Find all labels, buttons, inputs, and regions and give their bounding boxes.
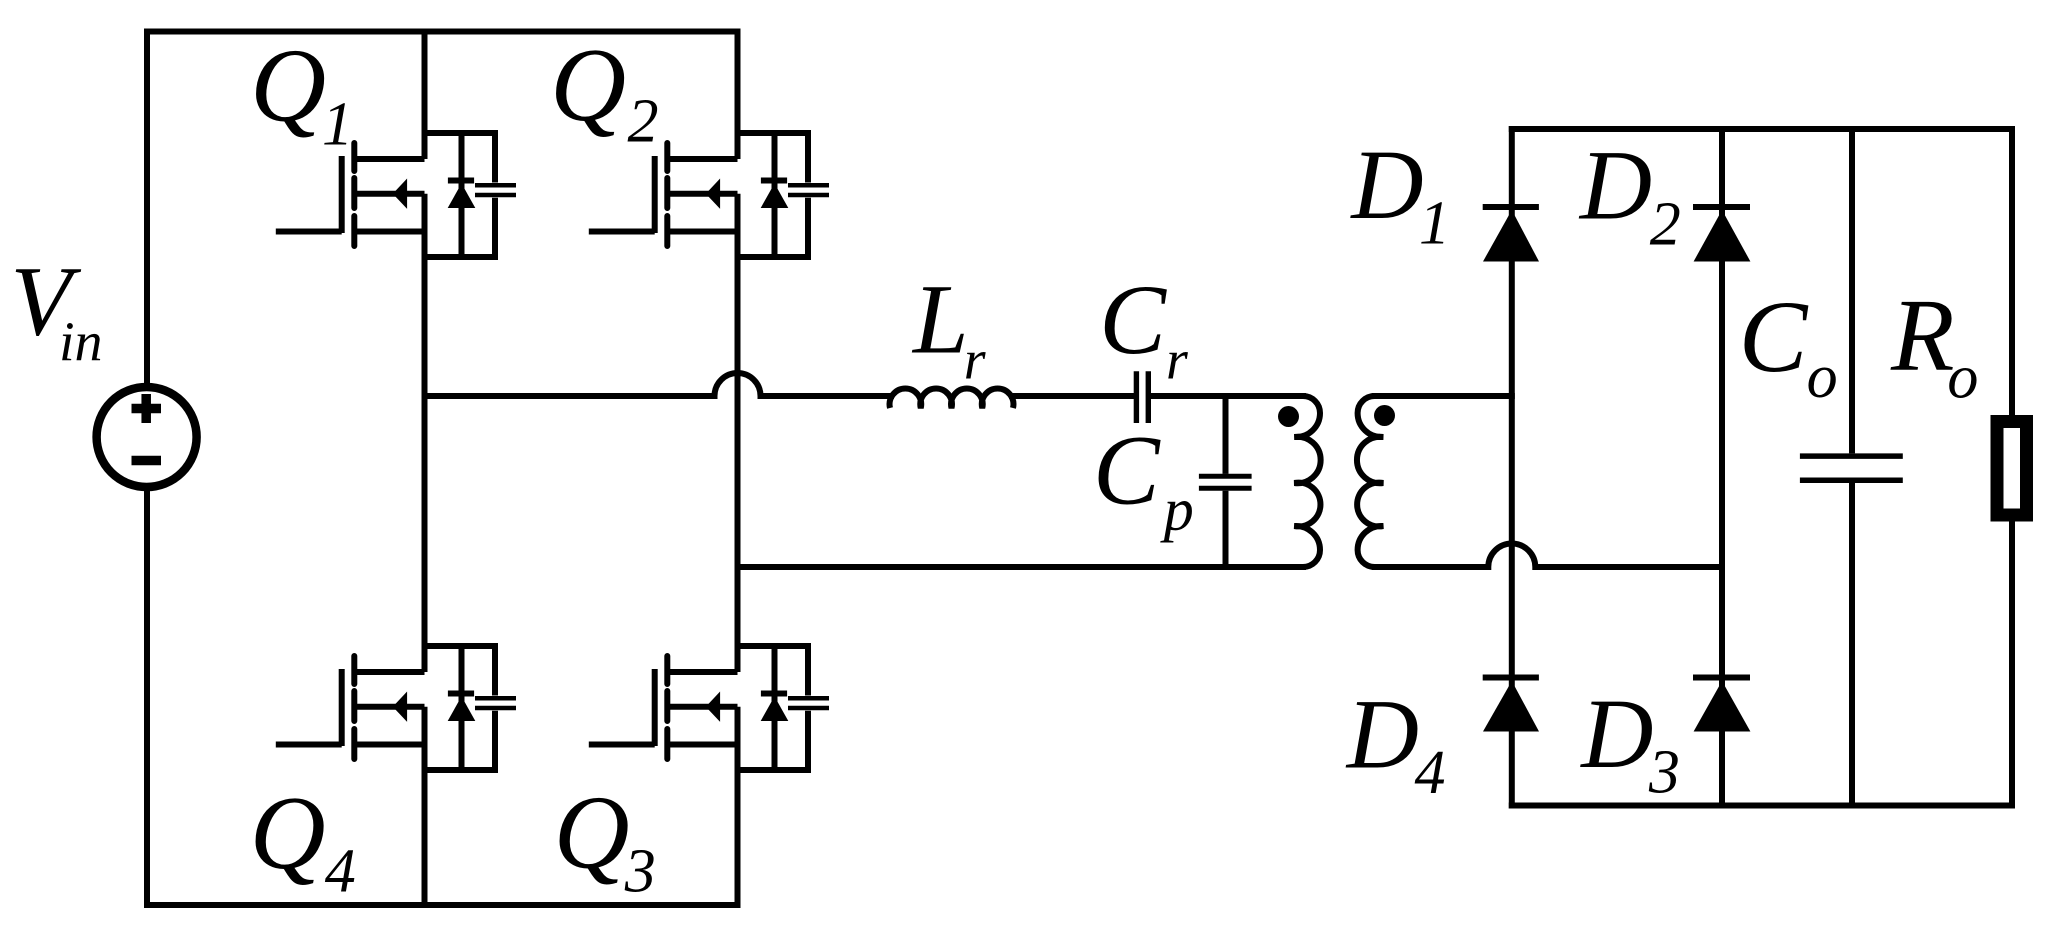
wire rectifier top rail (1509, 126, 2015, 132)
wire bottom rail (Q4/Q3 sources to Vin-) (144, 902, 741, 908)
body diode of Q2 (761, 133, 789, 257)
transistor Q2 (MOSFET) (589, 143, 738, 246)
body diode of Q4 (448, 646, 476, 770)
wire rectifier right leg (1719, 126, 1725, 809)
label Ro (1890, 278, 1978, 412)
diode D1 (1483, 207, 1539, 262)
label D1 (1349, 129, 1450, 258)
label Cr (1099, 264, 1188, 392)
label Vin (11, 246, 103, 374)
diode D4 (1483, 678, 1539, 732)
wire left rail upper (top rail to Vin+) (144, 29, 150, 389)
label D4 (1345, 678, 1446, 807)
wire rectifier left leg (1509, 126, 1515, 809)
wire bridge midpoint A to Lr (with hop over right leg) (422, 373, 895, 396)
svg-text:Q: Q (250, 774, 326, 891)
capacitor Co (1800, 456, 1903, 480)
label Cp (1093, 415, 1194, 543)
voltage source Vin (97, 387, 197, 487)
label D3 (1579, 678, 1680, 806)
svg-text:1: 1 (1419, 190, 1450, 258)
wire right bridge leg (Q2 drain / Q2-Q3 junction / Q3 source) (735, 29, 741, 909)
diode D3 (1693, 678, 1750, 732)
svg-text:C: C (1099, 264, 1167, 375)
wire left bridge leg (Q1 drain / Q1-Q4 junction / Q4 source) (422, 29, 428, 909)
transistor Q1 (MOSFET) (276, 143, 425, 246)
svg-text:in: in (59, 312, 103, 374)
svg-text:D: D (1345, 678, 1419, 789)
parallel capacitor of Q4 (425, 646, 517, 770)
parallel capacitor of Q2 (738, 133, 830, 257)
svg-text:L: L (911, 264, 969, 375)
label Co (1739, 280, 1838, 411)
inductor Lr (890, 389, 1014, 408)
wire Co leg (1849, 129, 1855, 806)
svg-text:r: r (1166, 329, 1188, 391)
transistor Q4 (MOSFET) (276, 656, 425, 759)
label Q3 (554, 774, 656, 906)
wire Cr to transformer primary top (node with Cp tap) (1151, 393, 1306, 399)
svg-text:p: p (1160, 476, 1194, 542)
capacitor Cr (series) (1136, 371, 1148, 423)
wire secondary bottom to D2/D3 junction (with hop over left leg) (1372, 544, 1725, 568)
svg-text:4: 4 (325, 838, 356, 906)
svg-text:3: 3 (1648, 738, 1680, 806)
transformer secondary polarity dot (1374, 405, 1395, 426)
svg-text:R: R (1890, 278, 1955, 393)
transformer secondary winding (1357, 396, 1383, 567)
body diode of Q3 (761, 646, 789, 770)
body diode of Q1 (448, 133, 476, 257)
label Q2 (550, 26, 658, 156)
transformer primary winding (1294, 396, 1320, 567)
wire Ro leg (2009, 126, 2015, 809)
svg-text:D: D (1349, 129, 1423, 240)
wire top rail (Vin+ to Q1/Q2 drains) (144, 29, 741, 35)
svg-text:o: o (1947, 344, 1978, 412)
label D2 (1578, 130, 1681, 259)
svg-text:D: D (1579, 678, 1653, 789)
wire secondary top to D1/D4 junction (1372, 393, 1515, 399)
label Q1 (250, 27, 353, 159)
svg-text:D: D (1578, 130, 1652, 241)
svg-text:Q: Q (250, 27, 326, 144)
svg-text:C: C (1093, 415, 1161, 526)
transformer primary polarity dot (1278, 406, 1299, 427)
resistor Ro (1997, 422, 2027, 516)
svg-text:2: 2 (1650, 191, 1681, 259)
svg-text:2: 2 (628, 88, 659, 156)
capacitor Cp (parallel) (1199, 396, 1252, 567)
wire Lr to Cr (1009, 393, 1134, 399)
diode D2 (1693, 207, 1750, 262)
svg-text:Q: Q (554, 774, 630, 891)
wire Q2/Q3 midpoint B to transformer primary bottom (735, 564, 1307, 570)
parallel capacitor of Q3 (738, 646, 830, 770)
svg-text:4: 4 (1415, 739, 1446, 807)
svg-text:Q: Q (550, 26, 626, 143)
parallel capacitor of Q1 (425, 133, 517, 257)
label Lr (911, 264, 986, 392)
svg-text:o: o (1807, 343, 1838, 411)
transistor Q3 (MOSFET) (589, 656, 738, 759)
svg-text:1: 1 (322, 90, 353, 158)
svg-text:r: r (964, 329, 986, 391)
svg-text:3: 3 (624, 838, 656, 906)
label Q4 (250, 774, 356, 906)
svg-text:C: C (1739, 280, 1809, 394)
wire left rail lower (Vin- to bottom rail) (144, 486, 150, 908)
wire rectifier bottom rail (1509, 803, 2015, 809)
